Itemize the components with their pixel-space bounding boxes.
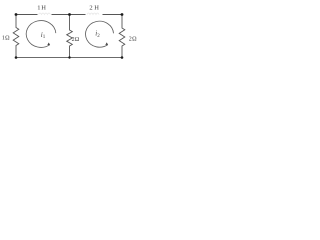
svg-text:Ω: Ω bbox=[132, 37, 137, 43]
svg-text:H: H bbox=[94, 5, 99, 12]
svg-text:2: 2 bbox=[89, 5, 92, 12]
svg-text:Ω: Ω bbox=[75, 37, 80, 43]
svg-text:Ω: Ω bbox=[5, 36, 10, 42]
svg-text:H: H bbox=[41, 5, 46, 12]
svg-text:2: 2 bbox=[97, 34, 100, 39]
svg-text:1: 1 bbox=[43, 35, 46, 40]
svg-text:1: 1 bbox=[37, 5, 40, 12]
